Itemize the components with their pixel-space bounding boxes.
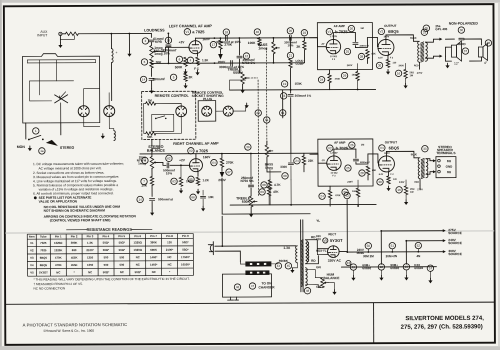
svg-text:14: 14	[138, 198, 142, 202]
svg-text:19: 19	[283, 82, 287, 86]
svg-text:AF AMP: AF AMP	[334, 141, 345, 145]
shorting plug box	[198, 101, 216, 122]
electrolytic callout 51	[389, 242, 395, 248]
ground	[405, 83, 407, 85]
ground	[352, 276, 354, 278]
junction	[380, 230, 382, 232]
wire	[250, 207, 252, 212]
wire	[355, 149, 357, 158]
svg-text:12″: 12″	[454, 62, 460, 66]
svg-text:8Ω: 8Ω	[447, 170, 452, 174]
table footnotes	[33, 277, 189, 291]
svg-text:SILVERTONE MODELS 274,: SILVERTONE MODELS 274,	[405, 316, 484, 322]
svg-text:60: 60	[257, 111, 261, 115]
svg-text:Pin 7: Pin 7	[150, 234, 157, 238]
resistor callout 40	[254, 29, 260, 35]
ground	[405, 200, 407, 202]
wire plate	[195, 154, 197, 159]
wire	[303, 153, 305, 155]
wire	[109, 129, 114, 131]
svg-text:470K: 470K	[55, 263, 62, 267]
svg-text:7025: 7025	[40, 248, 47, 252]
see parts list note	[34, 196, 37, 199]
part callout 43	[346, 260, 351, 265]
svg-text:SOURCE: SOURCE	[448, 252, 462, 256]
svg-text:340V: 340V	[399, 181, 405, 184]
svg-text:160V: 160V	[203, 155, 211, 159]
potentiometer R2 loudness 1meg	[150, 45, 153, 57]
svg-text:V2: V2	[328, 146, 332, 150]
junction	[238, 37, 240, 39]
tube V1b designator	[326, 28, 332, 34]
power transformer T1 primary	[296, 246, 298, 263]
resistor callout 29	[342, 189, 348, 195]
svg-text:40: 40	[256, 30, 260, 34]
wire	[303, 50, 305, 63]
wire	[357, 81, 359, 90]
wire	[154, 162, 166, 165]
wire	[329, 199, 331, 206]
transformer callout	[421, 29, 427, 35]
title box divider	[373, 303, 375, 344]
wire coupling bus	[195, 37, 317, 40]
svg-text:14: 14	[429, 266, 433, 270]
wire	[38, 60, 40, 95]
remote control dashed box	[142, 91, 196, 139]
coil L1	[111, 49, 113, 63]
svg-text:26: 26	[350, 27, 354, 31]
potentiometer stereo balance 250K	[150, 156, 153, 168]
junction	[273, 62, 275, 64]
svg-text:2K: 2K	[189, 75, 194, 79]
wire	[367, 175, 369, 180]
svg-text:RD/BK: RD/BK	[279, 259, 289, 263]
svg-text:275, 276, 297 (Ch. 528.59390): 275, 276, 297 (Ch. 528.59390)	[401, 324, 483, 330]
wire	[419, 186, 421, 189]
wire	[221, 167, 223, 170]
svg-text:STEREO: STEREO	[60, 146, 75, 150]
wire	[240, 262, 245, 264]
svg-text:1V 002: 1V 002	[330, 56, 338, 58]
wire interstage	[290, 98, 292, 154]
ground	[334, 290, 336, 292]
wire	[167, 33, 169, 43]
svg-text:51: 51	[391, 244, 395, 248]
wire	[282, 90, 284, 118]
svg-text:Pin 4: Pin 4	[103, 234, 110, 238]
svg-text:390K: 390K	[150, 240, 157, 244]
wire inside changer	[27, 59, 95, 61]
svg-text:MON: MON	[17, 145, 26, 149]
tube V2a 7025 triode	[189, 159, 202, 172]
wire	[352, 270, 354, 275]
table text	[29, 234, 191, 275]
svg-text:60mfd: 60mfd	[362, 266, 371, 270]
resistor callout 47K	[259, 189, 265, 195]
wire	[110, 34, 112, 49]
svg-text:-2V: -2V	[321, 160, 325, 162]
wire	[219, 38, 221, 40]
svg-text:20Ω: 20Ω	[410, 189, 415, 191]
wire	[221, 178, 223, 214]
capacitor callout 14	[137, 196, 143, 202]
wire	[156, 117, 182, 134]
svg-text:470K: 470K	[335, 194, 341, 197]
resistor callout 24	[319, 193, 325, 199]
svg-text:130: 130	[167, 240, 172, 244]
wire	[25, 123, 27, 139]
svg-text:V5: V5	[323, 239, 327, 243]
resistor 100K	[356, 188, 359, 197]
resistor 1.2K	[289, 59, 292, 68]
potentiometer callout 9	[142, 157, 148, 163]
wire	[238, 59, 240, 72]
resistor callout 16	[395, 70, 401, 76]
wire plate to transformer	[386, 35, 419, 42]
ground	[29, 146, 31, 148]
potentiometer treble right 500K	[249, 196, 252, 207]
tube V2b designator	[327, 145, 333, 151]
resistor R6 callout	[176, 56, 182, 62]
svg-text:Pin 3: Pin 3	[87, 234, 94, 238]
T1 filament winding	[305, 268, 307, 286]
wire	[167, 48, 169, 63]
svg-text:1320Ω: 1320Ω	[133, 248, 142, 252]
svg-text:300mmf 1%: 300mmf 1%	[295, 94, 312, 98]
svg-text:60mfd: 60mfd	[390, 266, 399, 270]
svg-text:Pin 8: Pin 8	[166, 234, 173, 238]
wire	[202, 190, 204, 195]
wire	[238, 38, 240, 55]
ground	[429, 278, 431, 280]
transformer core	[421, 158, 424, 178]
svg-text:455K: 455K	[71, 263, 78, 267]
wire	[329, 83, 331, 90]
svg-text:4.7K: 4.7K	[274, 183, 281, 187]
svg-text:38: 38	[487, 41, 491, 45]
svg-text:61: 61	[265, 118, 269, 122]
wire	[230, 80, 246, 90]
junction	[214, 62, 216, 64]
ground	[388, 186, 390, 188]
wire	[221, 154, 223, 158]
wire	[417, 249, 419, 252]
svg-text:270K: 270K	[226, 161, 234, 165]
svg-text:20: 20	[289, 29, 293, 33]
coupling capacitor 3300mmf	[353, 43, 358, 45]
junction	[272, 37, 274, 39]
wire	[60, 123, 62, 135]
wire	[268, 180, 270, 187]
svg-text:RIGHT CHANNEL AF AMP: RIGHT CHANNEL AF AMP	[173, 142, 219, 146]
wire	[180, 165, 182, 177]
tube V3 6BQ5 output pentode	[378, 39, 394, 55]
wire filament top	[305, 270, 315, 278]
svg-text:1meg: 1meg	[154, 52, 162, 56]
terminal strip	[245, 261, 271, 266]
svg-text:b 7025: b 7025	[335, 29, 348, 34]
resistor 65K	[366, 49, 369, 58]
resistor 2K	[184, 73, 187, 81]
svg-text:CHANGER: CHANGER	[258, 285, 275, 289]
interlock plug	[228, 297, 239, 300]
svg-text:43: 43	[347, 261, 351, 265]
resistor 2K	[303, 41, 306, 50]
svg-text:10%: 10%	[166, 171, 172, 175]
wire 300V rail	[348, 251, 443, 253]
svg-text:16: 16	[397, 71, 401, 75]
svg-text:GND: GND	[446, 165, 454, 169]
svg-text:69: 69	[260, 190, 264, 194]
svg-text:* THIS READING WILL VARY DE: * THIS READING WILL VARY DEPENDING UPON …	[33, 277, 189, 282]
wire	[464, 39, 481, 45]
ground	[197, 70, 199, 72]
transformer core	[421, 42, 424, 62]
wire	[380, 270, 382, 275]
tube V4 6BQ5 output pentode	[378, 156, 394, 172]
tube V1a designator	[184, 29, 190, 35]
faint scan fold line	[5, 230, 494, 233]
svg-text:V2: V2	[30, 248, 34, 252]
wire wiper	[328, 283, 334, 290]
wire	[405, 180, 407, 186]
svg-text:RED: RED	[414, 65, 419, 67]
svg-text:10500*: 10500*	[181, 262, 191, 266]
svg-text:45: 45	[287, 264, 291, 268]
ground	[197, 189, 199, 191]
svg-text:50Ω*: 50Ω*	[103, 248, 110, 252]
svg-text:NC: NC	[120, 270, 124, 274]
potentiometer treble 500K	[241, 72, 244, 84]
svg-text:V1: V1	[186, 30, 190, 34]
capacitor 3300mmf	[166, 45, 171, 47]
wire	[144, 103, 146, 133]
wire input bus	[78, 32, 151, 34]
power transformer core	[300, 220, 302, 292]
wire	[366, 58, 368, 63]
part callout 44	[275, 263, 281, 269]
svg-text:6BQ5: 6BQ5	[389, 145, 400, 150]
tube V5 designator	[323, 238, 328, 243]
svg-text:NOT SHOWN ON SCHEMATIC DIA: NOT SHOWN ON SCHEMATIC DIAGRAM	[44, 209, 106, 213]
capacitor 500mmf	[167, 163, 169, 168]
wire plate	[333, 33, 355, 40]
svg-text:REMOTE CONTROL: REMOTE CONTROL	[155, 94, 190, 98]
svg-text:2100*: 2100*	[166, 248, 174, 252]
ground	[180, 188, 182, 190]
wire	[84, 117, 100, 127]
resistor callout 29	[341, 72, 347, 78]
capacitor C16 callout	[165, 37, 171, 43]
svg-text:50Ω*: 50Ω*	[103, 241, 110, 245]
wire	[30, 80, 74, 82]
svg-text:BALANCE: BALANCE	[323, 276, 340, 280]
svg-text:61: 61	[281, 111, 285, 115]
svg-text:17500*: 17500*	[181, 255, 191, 259]
tube socket V1 (bottom view)	[78, 106, 89, 117]
wire	[111, 63, 113, 101]
output transformer secondary	[426, 159, 428, 178]
wire	[150, 42, 152, 45]
wire	[445, 47, 451, 56]
wire loudness comp	[289, 38, 291, 52]
terminal strip 2	[245, 270, 269, 275]
part callout 1a	[39, 148, 45, 154]
resistor 470K	[328, 74, 331, 83]
resistor 1meg	[146, 102, 156, 105]
arrowhead	[439, 38, 442, 41]
wire	[445, 38, 454, 40]
svg-text:68: 68	[283, 174, 287, 178]
svg-text:Pin 9: Pin 9	[182, 234, 189, 238]
wire	[267, 157, 281, 172]
wire shield loop	[60, 36, 74, 40]
output transformer primary	[418, 158, 420, 179]
svg-text:240V: 240V	[347, 64, 353, 67]
svg-text:24: 24	[320, 78, 324, 82]
wire	[233, 106, 246, 111]
junction	[391, 251, 393, 253]
resistor R3 callout	[141, 59, 147, 65]
resistor 100K	[356, 72, 359, 81]
svg-text:1350: 1350	[87, 263, 94, 267]
svg-text:50: 50	[367, 244, 371, 248]
svg-text:200V: 200V	[218, 178, 226, 182]
resistor R17 callout	[210, 41, 216, 47]
svg-text:A PHOTOFACT STANDARD NOTATI: A PHOTOFACT STANDARD NOTATION SCHEMATIC	[23, 322, 128, 327]
wire	[268, 196, 270, 205]
svg-text:24: 24	[320, 194, 324, 198]
junction	[168, 62, 170, 64]
svg-text:50Ω*: 50Ω*	[103, 270, 110, 274]
junction	[289, 37, 291, 39]
svg-text:30: 30	[378, 180, 382, 184]
wire filament bottom	[305, 284, 315, 286]
switch contacts	[155, 118, 157, 120]
wire	[354, 33, 356, 42]
wire	[151, 152, 153, 156]
svg-text:BLUE: BLUE	[411, 154, 418, 156]
resistor callout 22K	[294, 158, 300, 164]
cartridge crystal	[55, 95, 68, 103]
speaker woofer 12in	[451, 45, 456, 57]
svg-text:13: 13	[405, 265, 409, 269]
junction	[151, 63, 153, 65]
svg-text:62: 62	[167, 156, 171, 160]
svg-text:17: 17	[212, 43, 216, 47]
junction	[290, 89, 292, 91]
wire	[426, 159, 433, 161]
wire inside changer 2	[28, 62, 96, 64]
wire	[426, 172, 433, 175]
wire	[469, 57, 481, 61]
junction	[258, 37, 260, 39]
wire	[405, 241, 407, 264]
svg-text:47: 47	[251, 284, 255, 288]
svg-text:(CONTROL VIEWED FROM SHAFT: (CONTROL VIEWED FROM SHAFT END)	[50, 218, 111, 222]
svg-text:52: 52	[417, 244, 421, 248]
wire	[108, 93, 110, 106]
svg-text:340V: 340V	[399, 64, 405, 67]
svg-text:1.3A: 1.3A	[283, 246, 291, 250]
svg-text:GN: GN	[316, 265, 321, 269]
wire cathode	[197, 172, 199, 176]
svg-text:690K: 690K	[150, 248, 157, 252]
wire	[315, 285, 322, 288]
junction	[239, 71, 241, 73]
wire	[271, 263, 278, 265]
resistor callout 30	[376, 62, 382, 68]
resistor callout 23	[301, 30, 307, 36]
svg-text:Pin 1: Pin 1	[55, 234, 62, 238]
svg-text:+2V: +2V	[179, 40, 186, 44]
wire	[269, 169, 271, 180]
svg-text:RD: RD	[311, 259, 316, 263]
part callout 61a	[280, 110, 286, 116]
svg-text:RD3-YL: RD3-YL	[316, 249, 327, 253]
svg-text:1460*: 1460*	[150, 255, 158, 259]
svg-text:26: 26	[350, 143, 354, 147]
svg-text:20M+2N: 20M+2N	[386, 254, 397, 258]
resistor callout	[349, 142, 355, 148]
cathode resistor 130	[387, 176, 390, 184]
svg-text:36: 36	[460, 28, 464, 32]
svg-text:30: 30	[378, 64, 382, 68]
svg-text:150K: 150K	[295, 82, 303, 86]
wire secondary top	[425, 39, 439, 42]
svg-text:1.2K: 1.2K	[203, 178, 210, 182]
svg-text:V1: V1	[30, 241, 34, 245]
series capacitor 3300mmf	[290, 35, 292, 40]
wire	[151, 168, 153, 176]
resistor 270K	[219, 40, 222, 49]
capacitor callout 67	[226, 169, 232, 175]
junction	[221, 153, 223, 155]
resistor callout 63	[171, 178, 177, 184]
ground	[202, 206, 204, 208]
svg-text:50K: 50K	[147, 135, 153, 139]
wire	[405, 63, 407, 69]
wire	[303, 38, 305, 41]
wire	[128, 34, 130, 52]
svg-text:60mfd: 60mfd	[414, 266, 423, 270]
wire feedback bus lower	[230, 88, 376, 91]
resistor callout 64	[211, 159, 217, 165]
svg-text:RESISTANCE READINGS: RESISTANCE READINGS	[87, 228, 133, 232]
T1 core hatching	[301, 239, 303, 286]
svg-text:500: 500	[104, 255, 109, 259]
hum balance callout	[304, 288, 310, 294]
speaker terminal box	[436, 157, 456, 178]
ganged bass link (dashed)	[265, 48, 267, 145]
svg-text:NC: NC	[168, 255, 172, 259]
svg-text:1320Ω: 1320Ω	[133, 240, 142, 244]
capacitor C18 callout	[223, 29, 229, 35]
resistor R5 callout	[170, 74, 176, 80]
wire to balance pot	[151, 139, 153, 152]
aux input jack J1	[59, 32, 62, 35]
wire top bus right channel	[140, 152, 318, 155]
capacitor C2	[149, 40, 154, 42]
capacitor C20 callout	[287, 28, 293, 34]
svg-text:SOURCE: SOURCE	[448, 231, 462, 235]
wire cathode	[387, 55, 389, 59]
svg-text:8Ω: 8Ω	[447, 159, 452, 163]
wire plate	[194, 38, 196, 40]
capacitor callout 62	[166, 155, 172, 161]
svg-text:6.2V: 6.2V	[378, 57, 383, 59]
svg-text:5Y3GT: 5Y3GT	[39, 270, 48, 274]
